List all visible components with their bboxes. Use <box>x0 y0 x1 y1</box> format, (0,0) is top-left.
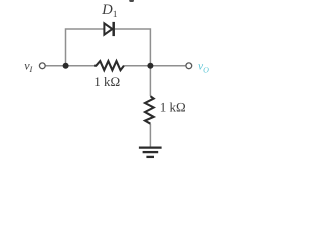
wire top branch right segment <box>115 29 151 66</box>
wire node B down to resistor R2 <box>149 66 151 96</box>
svg-text:1 kΩ: 1 kΩ <box>160 100 186 115</box>
svg-text:1 kΩ: 1 kΩ <box>94 74 120 89</box>
wire node B to output <box>124 65 186 67</box>
output terminal vO <box>186 63 192 69</box>
stray mark top edge <box>129 0 134 2</box>
node A junction dot <box>63 63 69 69</box>
node B junction dot <box>147 63 153 69</box>
ground <box>139 148 162 157</box>
svg-text:D1: D1 <box>101 2 117 20</box>
resistor R1 (horizontal 1 kOhm) <box>94 61 124 70</box>
wire input to node A <box>46 65 95 67</box>
wire top branch left segment <box>66 29 105 66</box>
svg-text:vO: vO <box>198 60 209 74</box>
input terminal vI <box>39 63 45 69</box>
svg-text:vI: vI <box>24 58 33 74</box>
diode D1 <box>104 22 113 36</box>
wire resistor R2 to ground <box>149 124 151 147</box>
resistor R2 (vertical 1 kOhm) <box>145 96 154 124</box>
